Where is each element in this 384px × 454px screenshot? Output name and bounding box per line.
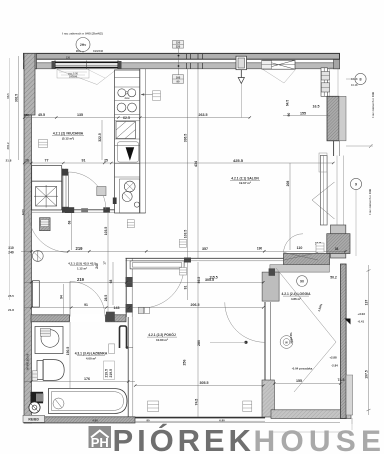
svg-text:4.2.1 (2) #KUCHNIA: 4.2.1 (2) #KUCHNIA: [53, 132, 84, 136]
wall bottom left (bathroom): [24, 417, 135, 423]
svg-text:10.18: 10.18: [351, 83, 358, 87]
top small label 190/246: [93, 49, 104, 53]
logo text HOUSE: [254, 425, 384, 454]
column dim stem: [240, 84, 242, 118]
tick marks on dim lines: [23, 116, 347, 386]
pokoj door leaf rect: [130, 261, 184, 269]
svg-text:219: 219: [76, 246, 84, 251]
kitchen stove circles: [117, 103, 136, 112]
wall salon-loggia horizontal hatched: [284, 254, 330, 265]
left margin tiny texts: [6, 93, 10, 150]
bottom right dim line: [270, 418, 352, 432]
svg-text:+2.88: +2.88: [329, 356, 337, 360]
svg-text:80: 80: [146, 419, 150, 423]
room label corridor: [68, 262, 96, 271]
bubble 90 loggia: [297, 276, 308, 287]
svg-text:64.5: 64.5: [286, 100, 290, 106]
toilet: [37, 360, 64, 381]
pokoj door jamb dark: [184, 258, 191, 263]
dim vertical x185 pokoj 256: [183, 360, 187, 366]
svg-text:160x90: 160x90: [69, 76, 78, 79]
pokoj bottom label boxes left: [148, 401, 159, 412]
svg-text:94: 94: [60, 295, 64, 299]
svg-text:256: 256: [183, 360, 187, 366]
kitchen left counter upper: [32, 166, 62, 182]
balcony door leaf right wall: [312, 156, 344, 226]
washbasin: [35, 327, 63, 354]
wall top outer strip: [24, 53, 340, 59]
wall kitchen peninsula vertical: [140, 69, 146, 213]
window W2 with X: [262, 60, 295, 69]
dim vertical x70 bathroom: [66, 322, 70, 388]
svg-text:155: 155: [296, 379, 302, 383]
dim vertical x113 pokoj door: [109, 262, 113, 305]
room label lazienka: [75, 352, 108, 361]
salon loggia small dims: [257, 241, 339, 279]
svg-text:155: 155: [300, 111, 306, 115]
grid bubble top circle: [76, 38, 90, 54]
svg-text:240: 240: [8, 251, 14, 255]
logo background strip: [0, 424, 384, 454]
left wall annotation text: [26, 353, 30, 370]
svg-text:310: 310: [8, 246, 14, 250]
svg-text:spad 2%: spad 2%: [289, 332, 293, 344]
right margin tick line y146: [346, 144, 373, 148]
svg-text:4.00 m²: 4.00 m²: [86, 356, 96, 360]
wall pokoj-loggia block above door: [262, 272, 279, 301]
small label box corridor x127: [127, 220, 134, 228]
loggia drain circle: [280, 336, 293, 349]
radiator left wall: [33, 281, 40, 307]
kitchen door arc: [68, 172, 106, 210]
svg-text:130: 130: [66, 57, 71, 60]
dim vertical x102 kitchen: [98, 120, 102, 160]
svg-text:4.2.1 (2.5) 43.5 43.5: 4.2.1 (2.5) 43.5 43.5: [68, 262, 96, 266]
pokoj door size boxes: [138, 307, 149, 313]
svg-text:219.5: 219.5: [109, 369, 113, 378]
dim vertical right x368: [364, 265, 370, 415]
svg-text:RE/BD: RE/BD: [28, 417, 39, 421]
219.5 vertical label box: [104, 361, 115, 380]
svg-text:103.5: 103.5: [104, 227, 108, 236]
svg-text:90: 90: [300, 280, 304, 284]
room label kitchen: [52, 132, 84, 141]
svg-text:16: 16: [25, 159, 29, 163]
svg-text:98.5: 98.5: [6, 93, 10, 99]
window label box below strip: [173, 75, 184, 84]
svg-text:305.5: 305.5: [200, 381, 209, 385]
kitchen sink circles: [118, 89, 136, 100]
window label box right: [262, 61, 272, 69]
small label box kitchen arrow: [141, 91, 161, 101]
svg-text:115.5: 115.5: [209, 276, 217, 280]
svg-text:137: 137: [364, 300, 368, 306]
svg-text:17: 17: [103, 261, 107, 265]
svg-text:21.8: 21.8: [6, 159, 12, 163]
dim line horizontal y251: [8, 246, 345, 254]
svg-text:PIÓREK: PIÓREK: [113, 422, 255, 454]
svg-text:91: 91: [82, 159, 86, 163]
svg-text:263.5: 263.5: [199, 113, 208, 117]
window W1 casement triangle: [57, 70, 117, 85]
svg-text:45.5: 45.5: [38, 113, 45, 117]
svg-text:1.12 m²: 1.12 m²: [77, 266, 87, 270]
loggia door arc: [284, 234, 319, 260]
wall pokoj top (thin double): [126, 258, 284, 261]
svg-text:zlew: zlew: [124, 97, 129, 100]
svg-text:(5.12 m²): (5.12 m²): [62, 136, 74, 140]
wall top-left corner block: [24, 53, 37, 68]
svg-text:EQ3: EQ3: [21, 209, 25, 215]
svg-text:25: 25: [104, 159, 108, 163]
wall right: window above pillar: [321, 68, 338, 97]
window W1 annotation box: [57, 49, 89, 79]
bathroom small box pair: [109, 344, 115, 354]
svg-text:4.86 m²: 4.86 m²: [291, 297, 301, 301]
dim 64.5 near window: [286, 100, 290, 106]
dim vertical x198: [194, 69, 201, 417]
left margin dim line: [9, 58, 11, 300]
svg-text:38: 38: [335, 247, 339, 251]
dim vertical x108 corridor: [104, 213, 108, 314]
corridor mini dims 240 17: [95, 261, 107, 269]
svg-text:190: 190: [257, 247, 263, 251]
dim line horizontal y117: [24, 105, 330, 118]
wall top-right corner block: [334, 60, 340, 69]
svg-text:I rac zakrwch n 94B: I rac zakrwch n 94B: [368, 189, 372, 215]
window W2 casement V: [263, 70, 296, 84]
grid bubble right C: [350, 178, 361, 189]
RE-BD box bottom left: [23, 415, 45, 422]
svg-text:16.5: 16.5: [313, 105, 320, 109]
svg-text:322.5: 322.5: [98, 133, 102, 142]
kitchen fridge hatched: [116, 122, 136, 139]
svg-text:160: 160: [176, 75, 181, 79]
kitchen lower sink circles: [113, 179, 140, 213]
svg-text:4.3.1 (3.4) ŁAZIENKA: 4.3.1 (3.4) ŁAZIENKA: [75, 352, 108, 356]
small label box salon right: [180, 268, 187, 276]
svg-text:-0.41: -0.41: [358, 320, 365, 324]
svg-text:434: 434: [194, 161, 198, 167]
svg-text:4.60: 4.60: [92, 419, 98, 423]
wall right pillar light part: [339, 96, 346, 141]
left margin extra tiny texts: [6, 159, 25, 313]
bathroom door arc: [70, 282, 105, 317]
wall loggia right: [341, 264, 353, 419]
svg-text:190/246: 190/246: [93, 49, 104, 53]
svg-text:21.8: 21.8: [8, 308, 14, 312]
kitchen black triangle symbol: [118, 142, 139, 162]
small label box kitchen wall: [39, 140, 48, 148]
loggia right small boxes: [319, 153, 327, 172]
svg-text:4.2.1 (2.1) SALON: 4.2.1 (2.1) SALON: [231, 176, 259, 180]
svg-text:28.5: 28.5: [104, 295, 108, 302]
svg-text:90: 90: [287, 113, 291, 117]
svg-text:425.5: 425.5: [233, 158, 244, 163]
svg-text:-2.84: -2.84: [331, 364, 338, 368]
wall top inner strip: [24, 63, 340, 69]
strip window ticks: [187, 54, 203, 69]
loggia texts: [289, 303, 365, 371]
svg-text:280: 280: [197, 340, 201, 346]
svg-text:176: 176: [84, 377, 90, 381]
dim line horizontal y282: [24, 276, 263, 283]
right edge rotated annotations: [351, 77, 375, 215]
wall bathroom top hatched: [31, 312, 126, 323]
wall right segment salon lower: [331, 225, 346, 258]
wall bottom pokoj line: [135, 418, 265, 422]
svg-text:197.5: 197.5: [364, 370, 368, 379]
jamb dark at loggia wall left: [269, 268, 275, 275]
svg-text:W: W: [285, 340, 288, 344]
svg-text:86.5: 86.5: [197, 277, 201, 284]
symbol circle with stem corridor: [32, 251, 43, 262]
wall right segment below pillar: [334, 141, 340, 156]
svg-text:HOUSE: HOUSE: [254, 425, 384, 454]
dim stem x179: [178, 48, 180, 74]
dim line horizontal y381: [24, 377, 345, 385]
logo text PIOREK: [113, 422, 255, 454]
wall partition corridor-pokoj vertical: [126, 258, 133, 317]
svg-text:74.5: 74.5: [195, 399, 199, 406]
loggia diagonal slope lines: [276, 268, 336, 392]
svg-text:PH: PH: [91, 435, 109, 450]
small label box x179 y240: [179, 239, 186, 247]
logo house icon: [89, 426, 112, 450]
kitchen left counter lower with X appliance: [32, 181, 62, 210]
window label box top: [173, 41, 184, 49]
svg-text:2Hv: 2Hv: [80, 43, 86, 47]
dim line bottom y422: [45, 419, 340, 423]
svg-text:I rac zakrwch n 94B: I rac zakrwch n 94B: [371, 92, 375, 118]
svg-text:WY/RE.BD.08: WY/RE.BD.08: [26, 353, 30, 370]
wall left lower (hatched): [24, 115, 32, 423]
svg-text:150: 150: [176, 41, 181, 45]
dim line horizontal y307: [24, 303, 263, 310]
top annotation text: [62, 32, 103, 36]
dim vertical x71 corridor: [60, 213, 72, 314]
svg-text:135: 135: [77, 113, 83, 117]
svg-text:4.2.1 (2.4) LOGGIA: 4.2.1 (2.4) LOGGIA: [282, 292, 312, 296]
wall salon-loggia corner block: [327, 234, 350, 254]
svg-text:143: 143: [114, 306, 120, 310]
svg-text:150.5: 150.5: [66, 347, 70, 356]
small label box washbasin x341: [316, 243, 324, 252]
wall salon-loggia lower band: [270, 265, 330, 272]
svg-text:302.5: 302.5: [14, 94, 18, 102]
svg-text:25.5: 25.5: [8, 294, 14, 298]
dim line horizontal y162: [24, 158, 333, 163]
svg-text:10.80 m²: 10.80 m²: [156, 338, 168, 342]
svg-text:91: 91: [184, 286, 188, 290]
svg-text:6.80: 6.80: [219, 419, 225, 423]
wall loggia left lower hatched: [262, 380, 274, 417]
svg-text:+3.03: +3.03: [358, 312, 366, 316]
room label salon: [230, 176, 260, 185]
svg-text:357: 357: [202, 247, 208, 251]
svg-text:110: 110: [297, 246, 303, 250]
toilet side mini boxes: [32, 371, 37, 381]
pokoj door arc: [142, 266, 184, 308]
svg-text:103.5: 103.5: [184, 230, 188, 239]
kitchen 62.5 dim text: [123, 116, 130, 120]
washing machine black: [29, 392, 44, 413]
shaft hatched box: [40, 218, 51, 231]
svg-text:219: 219: [77, 277, 85, 282]
bubble C stem line: [355, 190, 357, 256]
svg-text:220: 220: [176, 45, 181, 49]
svg-text:68: 68: [68, 221, 72, 225]
dim vertical x188: [184, 69, 188, 300]
wall loggia bottom hatched: [271, 410, 351, 419]
svg-text:300.2: 300.2: [6, 142, 10, 149]
wall bathroom right vertical: [128, 317, 133, 417]
svg-text:19.67 m²: 19.67 m²: [239, 181, 251, 185]
bathtub: [49, 389, 128, 414]
wall pokoj right vertical double: [265, 302, 270, 417]
wall kitchen-corridor horizontal: [31, 207, 120, 212]
window W1 kitchen top: [52, 60, 122, 69]
towel radiator bathroom right: [120, 326, 134, 349]
wall left upper (thick hatched): [24, 53, 35, 115]
room label loggia: [282, 292, 312, 301]
pokoj bottom label boxes right: [243, 401, 252, 412]
dim vertical x290 salon: [286, 163, 290, 250]
pokoj-loggia door arc: [210, 302, 265, 344]
loggia elevation triangle marker: [345, 319, 351, 325]
svg-text:91: 91: [84, 303, 88, 307]
svg-text:62.5: 62.5: [123, 116, 130, 120]
svg-text:219.5: 219.5: [105, 369, 109, 378]
svg-text:I rac zakrwch n 94B [2lwN2]: I rac zakrwch n 94B [2lwN2]: [62, 32, 103, 36]
kitchen door label box on arc: [97, 187, 106, 196]
svg-text:68: 68: [109, 280, 113, 284]
grid bubble right B: [346, 73, 366, 84]
svg-text:16.18: 16.18: [351, 77, 358, 81]
wall right pillar dark hatched: [327, 96, 339, 141]
entry door arc: [29, 207, 75, 252]
svg-text:74.5: 74.5: [338, 378, 345, 382]
column symbol with arrow: [236, 56, 247, 83]
svg-text:77: 77: [45, 159, 49, 163]
room label pokoj: [147, 332, 177, 342]
svg-text:4.2.1 (2.2) POKÓJ: 4.2.1 (2.2) POKÓJ: [148, 332, 176, 337]
svg-text:-0.04 posadzka: -0.04 posadzka: [292, 367, 313, 371]
svg-text:208: 208: [286, 181, 290, 187]
wall kitchen partition small: [62, 169, 69, 214]
svg-text:336.5: 336.5: [184, 134, 188, 143]
dim vertical x18 left: [14, 56, 18, 160]
svg-text:50.2: 50.2: [330, 276, 337, 280]
kitchen counter column: [115, 70, 140, 213]
